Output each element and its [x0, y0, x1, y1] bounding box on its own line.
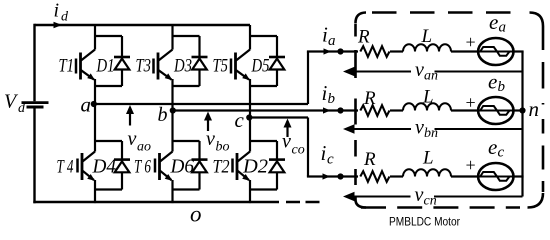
svg-text:D6: D6: [170, 156, 194, 178]
svg-text:an: an: [424, 69, 438, 84]
svg-text:c: c: [327, 152, 334, 168]
wire leg T3 collector: [171, 25, 173, 50]
wire D5 top connector: [250, 35, 277, 37]
svg-text:v: v: [415, 184, 424, 206]
svg-text:D3: D3: [173, 56, 192, 77]
diode D6: [192, 141, 208, 190]
svg-text:V: V: [4, 91, 19, 113]
svg-text:d: d: [61, 10, 69, 25]
svg-text:b: b: [498, 79, 506, 95]
node phase a terminal: [337, 48, 343, 54]
svg-text:T2: T2: [213, 157, 230, 178]
svg-text:a: a: [81, 93, 92, 117]
svg-text:v: v: [128, 128, 137, 150]
wire phase c source to bus: [512, 175, 524, 177]
resistor R phase c: [360, 171, 389, 182]
current arrow i_b: [323, 107, 331, 113]
voltage arrow v_bo: [207, 115, 209, 132]
node phase c terminal: [337, 173, 343, 179]
diode D2: [269, 141, 285, 190]
svg-text:o: o: [190, 202, 202, 227]
svg-text:v: v: [282, 131, 291, 153]
wire phase a riser: [307, 52, 309, 105]
wire D2 top connector: [250, 140, 277, 142]
wire leg T6 from node b: [171, 111, 173, 152]
wire D4 top connector: [95, 140, 122, 142]
inductor L phase c: [403, 169, 451, 176]
wire phase c dropper: [307, 118, 309, 177]
node phase b terminal: [337, 107, 343, 113]
transistor T1: [76, 50, 95, 81]
svg-text:i: i: [321, 141, 327, 165]
svg-text:T3: T3: [136, 56, 152, 77]
source e_c: [478, 163, 513, 190]
wire D6 bottom connector: [173, 188, 200, 190]
svg-text:L: L: [421, 26, 433, 47]
svg-text:e: e: [489, 10, 498, 34]
svg-text:d: d: [18, 101, 26, 116]
current arrow i_a: [324, 48, 332, 54]
svg-text:co: co: [292, 142, 305, 157]
svg-text:R: R: [363, 88, 376, 109]
diode D3: [192, 36, 208, 86]
svg-text:bn: bn: [424, 126, 438, 141]
svg-text:+: +: [464, 155, 476, 175]
wire bottom DC rail: [33, 201, 279, 203]
svg-text:D5: D5: [251, 56, 270, 77]
wire phase b R to L: [390, 109, 403, 111]
svg-text:D1: D1: [96, 56, 115, 77]
svg-text:L: L: [422, 148, 434, 169]
svg-text:D4: D4: [92, 156, 116, 178]
svg-text:+: +: [464, 93, 476, 113]
transistor T6: [155, 152, 173, 181]
wire neutral bus: [521, 52, 523, 197]
svg-text:ao: ao: [137, 140, 151, 155]
wire phase c R to L: [390, 175, 403, 177]
PMBLDC motor dashed box top-left corner: [356, 13, 367, 24]
wire phase c L to source: [451, 175, 479, 177]
diode D5: [269, 36, 285, 86]
node n: [519, 107, 525, 113]
svg-text:R: R: [357, 27, 370, 48]
svg-text:R: R: [363, 149, 376, 170]
node c: [246, 114, 252, 120]
current arrow i_c: [323, 173, 331, 179]
PMBLDC motor dashed box right border: [542, 26, 545, 192]
transistor T5: [231, 50, 250, 81]
wire phase a L to source: [451, 50, 479, 52]
svg-text:i: i: [54, 0, 60, 22]
node a: [91, 101, 97, 107]
wire phase b source to bus: [512, 109, 524, 111]
wire D2 bottom connector: [250, 188, 277, 190]
svg-text:L: L: [422, 87, 434, 108]
wire T5 emitter to node c: [249, 79, 251, 119]
svg-text:e: e: [488, 135, 497, 159]
voltage line v_cn: [353, 196, 411, 198]
wire left bus upper: [33, 24, 35, 102]
battery Vd long plate: [22, 101, 49, 104]
wire top DC rail: [35, 24, 251, 26]
wire phase a horizontal: [95, 103, 308, 105]
transistor T2: [233, 152, 251, 181]
wire phase c horizontal: [250, 116, 308, 118]
svg-text:D2: D2: [242, 156, 268, 178]
source e_b: [478, 97, 513, 124]
wire leg T4 from node a: [94, 104, 96, 152]
wire phase a source to bus: [512, 50, 524, 52]
wire D1 top connector: [95, 35, 122, 37]
voltage line v_bn: [353, 128, 411, 130]
wire D4 bottom connector: [95, 188, 122, 190]
voltage line v_an: [353, 71, 411, 73]
PMBLDC motor dashed box bottom-right corner: [528, 193, 544, 208]
diode D4: [114, 141, 130, 190]
svg-text:a: a: [499, 20, 507, 36]
svg-text:bo: bo: [216, 140, 230, 155]
inductor L phase b: [403, 103, 451, 110]
wire T6 emitter to rail: [171, 180, 173, 203]
PMBLDC motor dashed box bottom border: [361, 206, 528, 209]
svg-text:n: n: [529, 97, 540, 121]
voltage arrow v_ao: [129, 108, 131, 126]
wire leg T1 collector: [94, 25, 96, 50]
wire leg T2 from node c: [249, 118, 251, 152]
wire T1 emitter to node a: [94, 79, 96, 105]
wire T2 emitter to rail: [249, 180, 251, 203]
svg-text:T5: T5: [213, 56, 229, 77]
wire D5 bottom connector: [250, 85, 277, 87]
resistor R phase b: [360, 105, 389, 116]
wire leg T5 collector: [249, 25, 251, 50]
wire phase a R to L: [390, 50, 403, 52]
svg-text:c: c: [235, 108, 245, 132]
svg-text:v: v: [415, 116, 424, 138]
resistor R phase a: [360, 46, 389, 57]
wire phase b horizontal: [173, 109, 359, 111]
svg-text:T 4: T 4: [57, 157, 74, 178]
svg-text:T1: T1: [59, 56, 75, 77]
wire D3 bottom connector: [173, 85, 200, 87]
wire D1 bottom connector: [95, 85, 122, 87]
voltage arrow v_co: [286, 121, 288, 137]
PMBLDC motor dashed box top border: [372, 11, 511, 14]
wire phase c to motor: [307, 175, 358, 177]
svg-text:c: c: [498, 144, 505, 160]
source e_a: [478, 38, 513, 65]
svg-text:+: +: [464, 32, 476, 52]
svg-text:v: v: [206, 128, 215, 150]
transistor T4: [78, 152, 96, 181]
PMBLDC motor dashed box top-right corner: [530, 13, 544, 27]
wire D3 top connector: [173, 35, 200, 37]
node b: [170, 107, 176, 113]
wire bottom rail dashed continuation: [286, 201, 320, 203]
svg-text:v: v: [415, 59, 424, 81]
wire left bus lower: [33, 108, 35, 203]
wire T4 emitter to rail: [94, 180, 96, 203]
inductor L phase a: [403, 44, 451, 51]
battery Vd short plate: [27, 106, 44, 109]
svg-text:b: b: [328, 91, 336, 107]
svg-text:e: e: [488, 70, 497, 94]
svg-text:b: b: [158, 104, 168, 126]
PMBLDC motor dashed box bottom-left corner: [356, 200, 367, 208]
wire phase b L to source: [451, 109, 479, 111]
PMBLDC motor dashed box left border: [354, 24, 357, 200]
svg-text:a: a: [328, 33, 336, 49]
wire T3 emitter to node b: [171, 79, 173, 112]
diode D1: [114, 36, 130, 86]
transistor T3: [154, 50, 173, 81]
current arrow i_d: [54, 22, 63, 28]
svg-text:PMBLDC Motor: PMBLDC Motor: [389, 217, 460, 229]
wire phase a to motor: [307, 50, 358, 52]
svg-text:T 6: T 6: [134, 157, 151, 178]
wire D6 top connector: [173, 140, 200, 142]
